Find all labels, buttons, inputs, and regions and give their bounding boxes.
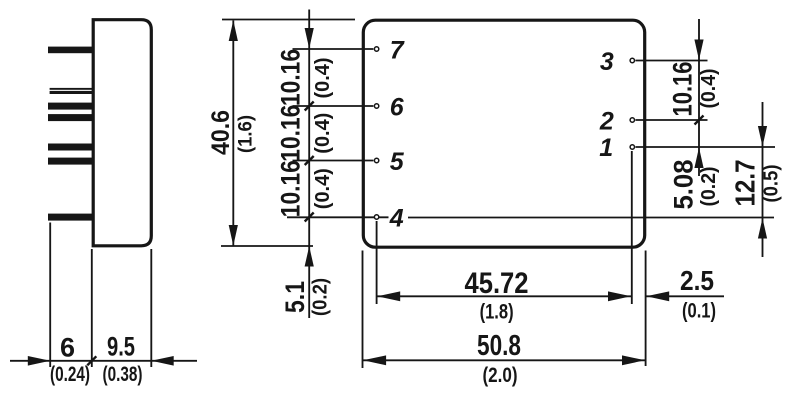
- side view: pin lead (pin 6): [48, 103, 93, 110]
- extension line: body left edge (bottom): [362, 251, 364, 369]
- svg-text:10.16: 10.16: [668, 62, 698, 117]
- arrow: 50.8 left (points left): [363, 355, 386, 365]
- svg-text:7: 7: [390, 37, 405, 65]
- slash terminator at 9.5/6 junction: [87, 356, 96, 365]
- arrow: 50.8 right (points right): [622, 355, 645, 365]
- arrow: right chain top (points down at pin 3 line): [694, 40, 703, 61]
- slash terminator at pin 5 line: [305, 156, 314, 165]
- arrow: chain top (points down at pin 7 line): [305, 28, 314, 49]
- svg-text:10.16: 10.16: [275, 105, 305, 162]
- leader line for 2.5: [646, 295, 724, 297]
- pin 1 row line: [636, 146, 776, 148]
- arrow: 2.5 (points left at body edge): [646, 291, 669, 301]
- arrow: dimension 6 left (points right): [28, 356, 50, 366]
- svg-text:2.5: 2.5: [680, 265, 714, 296]
- svg-text:(0.4): (0.4): [312, 168, 334, 209]
- svg-text:40.6: 40.6: [207, 110, 235, 155]
- side view: pin lead top (pin 7): [48, 47, 93, 54]
- right chain dimension line (10.16 / 5.08): [698, 19, 700, 176]
- extension line: body right edge (bottom): [645, 251, 647, 367]
- pin 4 row line (right part): [408, 217, 774, 219]
- extension line: side body right edge: [150, 249, 152, 367]
- dimension line for 6 / 9.5: [10, 360, 197, 362]
- svg-text:(0.4): (0.4): [698, 69, 720, 109]
- svg-text:2: 2: [599, 108, 614, 136]
- pin 2 leader line: [636, 119, 708, 121]
- slash terminator at pin 6 line: [305, 102, 314, 111]
- svg-text:(0.4): (0.4): [312, 58, 334, 99]
- svg-text:(0.2): (0.2): [698, 167, 720, 207]
- arrow: dimension 9.5 right (points left): [151, 356, 173, 366]
- arrow: 5.08 bottom (points up at pin 1 line): [694, 148, 703, 169]
- svg-text:(1.6): (1.6): [235, 115, 256, 153]
- svg-text:50.8: 50.8: [477, 330, 521, 362]
- svg-text:9.5: 9.5: [107, 332, 135, 362]
- side view: pin lead (far row, upper): [50, 88, 93, 90]
- svg-text:6: 6: [60, 333, 75, 363]
- svg-text:5.08: 5.08: [669, 160, 699, 210]
- pin 7 leader line: [293, 48, 374, 50]
- svg-text:1: 1: [599, 134, 613, 162]
- side view: pin lead (pin 2): [48, 114, 93, 121]
- arrow: chain bottom (points up at bottom edge, 5.1): [305, 246, 314, 266]
- extension line: side body left edge: [91, 249, 93, 367]
- svg-text:(0.4): (0.4): [312, 113, 334, 154]
- pin 5 leader line: [293, 160, 374, 162]
- svg-text:10.16: 10.16: [275, 49, 305, 106]
- extension line: pin 1 column: [631, 151, 633, 304]
- pin 5 circle: [374, 158, 378, 162]
- pin 6 circle: [374, 104, 378, 108]
- svg-text:4: 4: [389, 205, 404, 233]
- arrow: 12.7 bottom (points up at pin 4 line): [758, 218, 767, 239]
- svg-text:3: 3: [600, 48, 614, 76]
- side view: pin lead bottom (pin 4): [48, 214, 93, 221]
- svg-text:(0.24): (0.24): [50, 363, 90, 386]
- svg-text:45.72: 45.72: [465, 267, 529, 300]
- side view: pin lead (near row, upper): [50, 91, 93, 94]
- dimension line 45.72: [377, 295, 632, 297]
- arrow: 45.72 right (points right): [608, 291, 631, 301]
- extension line: pin tip (side view): [49, 223, 51, 368]
- svg-text:(0.1): (0.1): [682, 300, 716, 323]
- pin 6 leader line: [293, 105, 374, 107]
- arrow: 40.6 bottom (points down): [229, 225, 238, 246]
- svg-text:10.16: 10.16: [275, 160, 305, 217]
- pin 3 leader line: [636, 60, 708, 62]
- arrow: 12.7 top (points down at pin 1 line): [758, 126, 767, 147]
- slash terminator at pin 2 line: [695, 116, 704, 125]
- pin 4 leader line (left part): [287, 216, 389, 218]
- pin 2 circle: [630, 118, 634, 122]
- extension line: pin 4 column: [376, 221, 378, 304]
- dimension line 40.6 vertical: [232, 21, 234, 246]
- svg-text:6: 6: [390, 94, 405, 122]
- svg-text:12.7: 12.7: [730, 160, 761, 207]
- svg-text:(1.8): (1.8): [480, 300, 514, 323]
- main view: module body outline: [363, 20, 644, 247]
- side view: pin lead (pin 5): [48, 158, 93, 165]
- side view: module body: [93, 20, 151, 246]
- chain dimension line (left pin pitch): [308, 10, 310, 319]
- pin 3 circle: [630, 58, 634, 62]
- svg-text:(0.38): (0.38): [103, 363, 143, 386]
- pin 7 circle: [374, 47, 378, 51]
- pin 4 circle: [374, 215, 378, 219]
- svg-text:5: 5: [390, 148, 405, 176]
- dimension line 50.8: [363, 359, 646, 361]
- svg-text:(0.5): (0.5): [761, 165, 783, 203]
- svg-text:(0.2): (0.2): [310, 278, 332, 316]
- arrow: 40.6 top (points up): [229, 20, 238, 41]
- arrow: 45.72 left (points left): [377, 291, 400, 301]
- pin 1 circle: [630, 145, 634, 149]
- dimension line 12.7 vertical: [762, 102, 764, 257]
- slash terminator at pin 4 line: [305, 213, 314, 222]
- side view: pin lead (pin 1): [48, 144, 93, 151]
- svg-text:(2.0): (2.0): [483, 364, 518, 387]
- extension line: body bottom edge (for 40.6 / 5.1): [221, 245, 313, 247]
- svg-text:5.1: 5.1: [280, 281, 310, 313]
- extension line: body top edge (for 40.6): [222, 19, 355, 21]
